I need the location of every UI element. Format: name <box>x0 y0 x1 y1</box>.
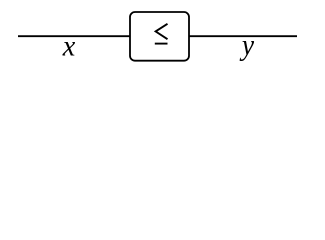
wire: left segment (input x) <box>18 35 130 37</box>
value label: less-or-equal symbol (angle strokes) <box>156 24 168 39</box>
value label: less-or-equal symbol (bar) <box>155 43 168 45</box>
svg-text:x: x <box>62 29 76 62</box>
svg-text:y: y <box>239 28 255 61</box>
wire: right segment (output y) <box>189 35 297 37</box>
comparator block U1 (less-than-or-equal) <box>130 12 189 61</box>
